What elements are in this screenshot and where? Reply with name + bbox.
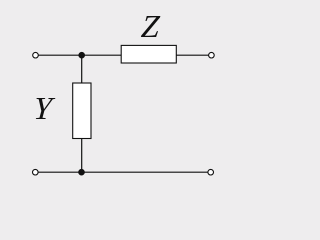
wire shunt lower: Y box to bottom junction: [81, 139, 83, 173]
terminal bottom-right (open): [208, 169, 214, 175]
junction (top node): [78, 52, 85, 59]
wire bottom: left terminal to right terminal through junction: [38, 171, 208, 173]
impedance Z (series box): [121, 45, 176, 63]
admittance Y (shunt box): [73, 83, 91, 139]
wire shunt upper: top junction to Y box: [81, 55, 83, 83]
terminal top-left (open): [33, 52, 39, 58]
svg-text:Y: Y: [32, 90, 56, 126]
svg-text:Z: Z: [140, 8, 162, 44]
terminal top-right (open): [209, 52, 215, 58]
terminal bottom-left (open): [33, 169, 39, 175]
wire top-right: Z box to right terminal: [176, 54, 208, 56]
junction (bottom node): [78, 169, 85, 176]
wire top-left: terminal to junction to Z box: [38, 54, 121, 56]
